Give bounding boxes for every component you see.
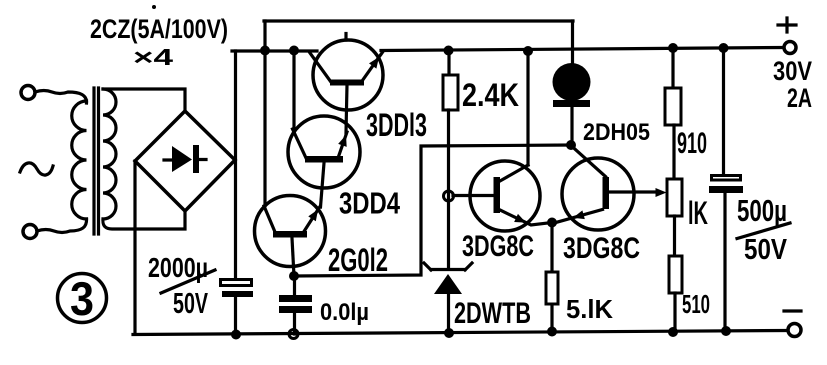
svg-text:3: 3	[70, 272, 94, 325]
wire 2.4K to zener	[447, 110, 450, 267]
transformer core	[94, 88, 99, 234]
output terminal -	[788, 324, 801, 337]
svg-text:3DDl3: 3DDl3	[366, 107, 427, 143]
wire secondary top lead	[103, 89, 185, 111]
svg-text:×4: ×4	[133, 44, 173, 70]
junction dot 510 bottom	[668, 327, 678, 337]
wire vertical x265 (rail A to 2G012 collector)	[263, 21, 266, 206]
svg-text:2DWTB: 2DWTB	[454, 297, 531, 330]
wire output + rail right segment	[381, 48, 783, 51]
speck	[152, 5, 156, 9]
transistor V5 3DG8C (right)	[554, 146, 667, 230]
wire top rail A (bias feed)	[264, 19, 573, 22]
output terminal +	[784, 42, 796, 54]
resistor R2 5.1K	[546, 223, 558, 333]
svg-text:3DD4: 3DD4	[339, 186, 401, 221]
transistor V3 2G012	[255, 196, 326, 277]
svg-text:0.0lµ: 0.0lµ	[320, 299, 369, 326]
plus sign	[778, 18, 796, 32]
zener diode 2DWTB	[424, 263, 472, 334]
resistor R1 2.4K	[443, 51, 458, 110]
minus sign	[784, 309, 801, 312]
transistor V4 3DG8C (left)	[470, 161, 552, 231]
transistor V2 3DD4	[288, 116, 360, 207]
capacitor C2 0.01u	[279, 276, 312, 334]
bridge diode symbol	[164, 145, 206, 173]
wire secondary bottom lead	[103, 211, 185, 229]
svg-text:500µ: 500µ	[737, 193, 787, 228]
junction dot node G	[566, 140, 576, 150]
svg-text:50V: 50V	[744, 234, 788, 266]
wire left 3DG8C collector to output rail	[526, 51, 529, 165]
transformer T primary winding	[72, 101, 87, 219]
wire rail A right corner down to 2DH05	[571, 21, 574, 64]
resistor R4 510	[669, 256, 682, 332]
junction dot 2.4K top	[444, 46, 454, 56]
svg-text:30V: 30V	[773, 56, 812, 86]
fraction slash	[161, 270, 215, 293]
svg-text:910: 910	[677, 127, 707, 160]
transistor V1 3DD13	[310, 34, 383, 134]
resistor R3 910	[665, 48, 681, 179]
junction dot emitters	[547, 218, 557, 228]
wire +unregulated rail left segment	[232, 49, 317, 52]
svg-text:3DG8C: 3DG8C	[462, 230, 534, 263]
capacitor C3 500u/50V	[709, 48, 743, 331]
wire bridge right corner up to +rail and down to C1	[234, 51, 237, 278]
capacitor C1 2000u/50V	[221, 280, 254, 336]
junction dot 5.1K bottom	[547, 327, 557, 337]
junction dot zener bottom	[444, 328, 454, 338]
bridge rectifier 2CZ diamond	[135, 111, 235, 211]
wire primary top lead	[35, 91, 87, 104]
junction donut node P (base of left 3DG8C)	[444, 191, 454, 201]
fraction slash	[737, 223, 790, 239]
input terminal J1 (top)	[21, 86, 35, 100]
svg-text:510: 510	[682, 289, 710, 319]
input terminal J2 (bottom)	[23, 225, 37, 239]
svg-text:50V: 50V	[173, 288, 208, 320]
junction dot C3 top	[719, 43, 729, 53]
svg-text:2G0l2: 2G0l2	[328, 242, 388, 278]
wire vertical x294 (rail to 3DD4 collector)	[292, 51, 295, 131]
figure number 3	[58, 272, 107, 325]
junction dot 265,50	[260, 46, 270, 56]
junction dot collector top	[523, 46, 533, 56]
wire bridge left corner down to bottom rail	[133, 161, 136, 334]
wire primary bottom lead	[37, 219, 87, 233]
potentiometer RP 1K	[667, 179, 682, 256]
svg-text:2DH05: 2DH05	[583, 119, 650, 146]
svg-text:lK: lK	[688, 195, 708, 231]
svg-text:2A: 2A	[787, 83, 812, 113]
svg-text:3DG8C: 3DG8C	[563, 232, 640, 265]
wire base lead left 3DG8C	[453, 194, 494, 197]
svg-text:5.lK: 5.lK	[566, 294, 613, 324]
junction dot C3 bottom	[721, 326, 731, 336]
svg-text:2CZ(5A/100V): 2CZ(5A/100V)	[90, 14, 228, 44]
junction dot 2000u bottom	[231, 330, 241, 340]
junction dot 294,50	[289, 46, 299, 56]
wire bottom rail	[133, 331, 787, 335]
wire base drive W1 (2G012 base to node G)	[294, 145, 571, 276]
diode 2DH05 (ball)	[553, 63, 591, 143]
junction dot base 2G012	[289, 271, 299, 281]
svg-text:2.4K: 2.4K	[462, 77, 519, 113]
junction donut 0.01u bottom	[289, 330, 298, 339]
junction dot 910 top	[668, 43, 678, 53]
transformer T secondary winding	[103, 89, 116, 219]
AC symbol ~	[20, 163, 53, 175]
